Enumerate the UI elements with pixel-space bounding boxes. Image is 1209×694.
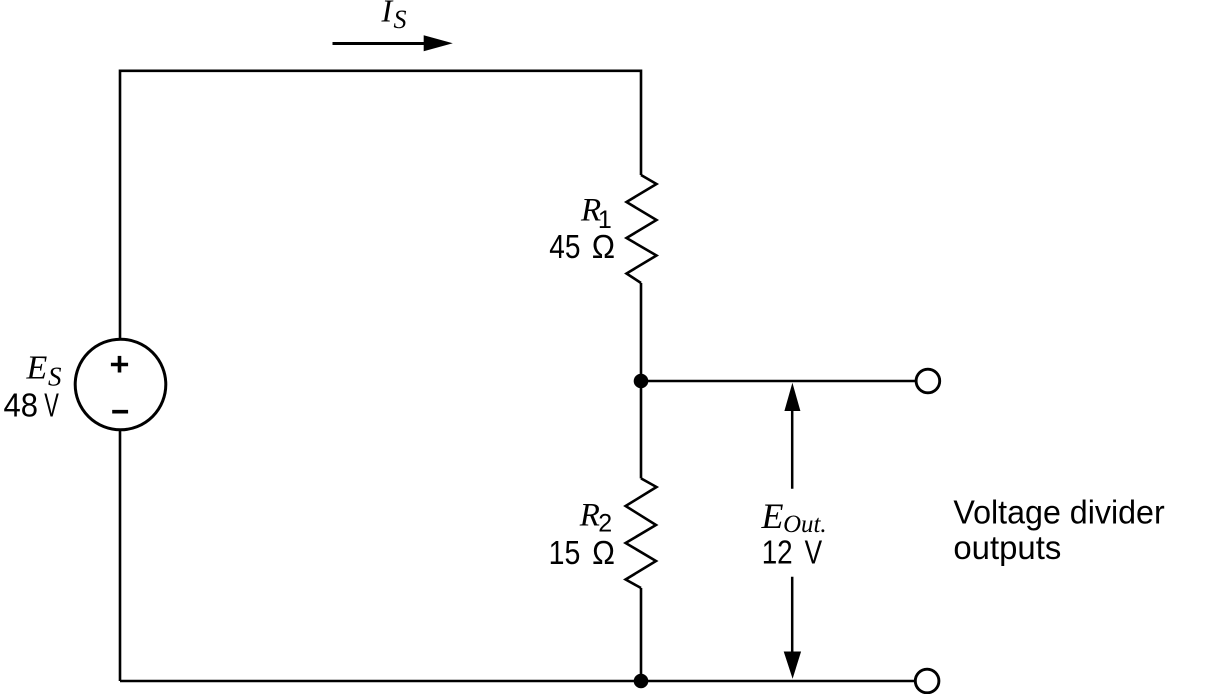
svg-text:Voltage divider: Voltage divider bbox=[953, 493, 1164, 530]
svg-text:Ω: Ω bbox=[592, 228, 615, 265]
svg-text:S: S bbox=[394, 5, 407, 34]
svg-text:12: 12 bbox=[762, 534, 793, 571]
svg-text:V: V bbox=[805, 534, 823, 571]
svg-text:R: R bbox=[579, 498, 600, 534]
svg-text:45: 45 bbox=[549, 228, 580, 265]
svg-text:outputs: outputs bbox=[953, 529, 1061, 566]
svg-text:E: E bbox=[761, 496, 784, 536]
svg-text:E: E bbox=[26, 349, 48, 386]
svg-text:48: 48 bbox=[4, 386, 39, 423]
svg-text:Ω: Ω bbox=[592, 534, 615, 571]
svg-text:I: I bbox=[381, 0, 394, 29]
svg-text:V: V bbox=[44, 386, 59, 423]
svg-text:15: 15 bbox=[549, 534, 581, 571]
